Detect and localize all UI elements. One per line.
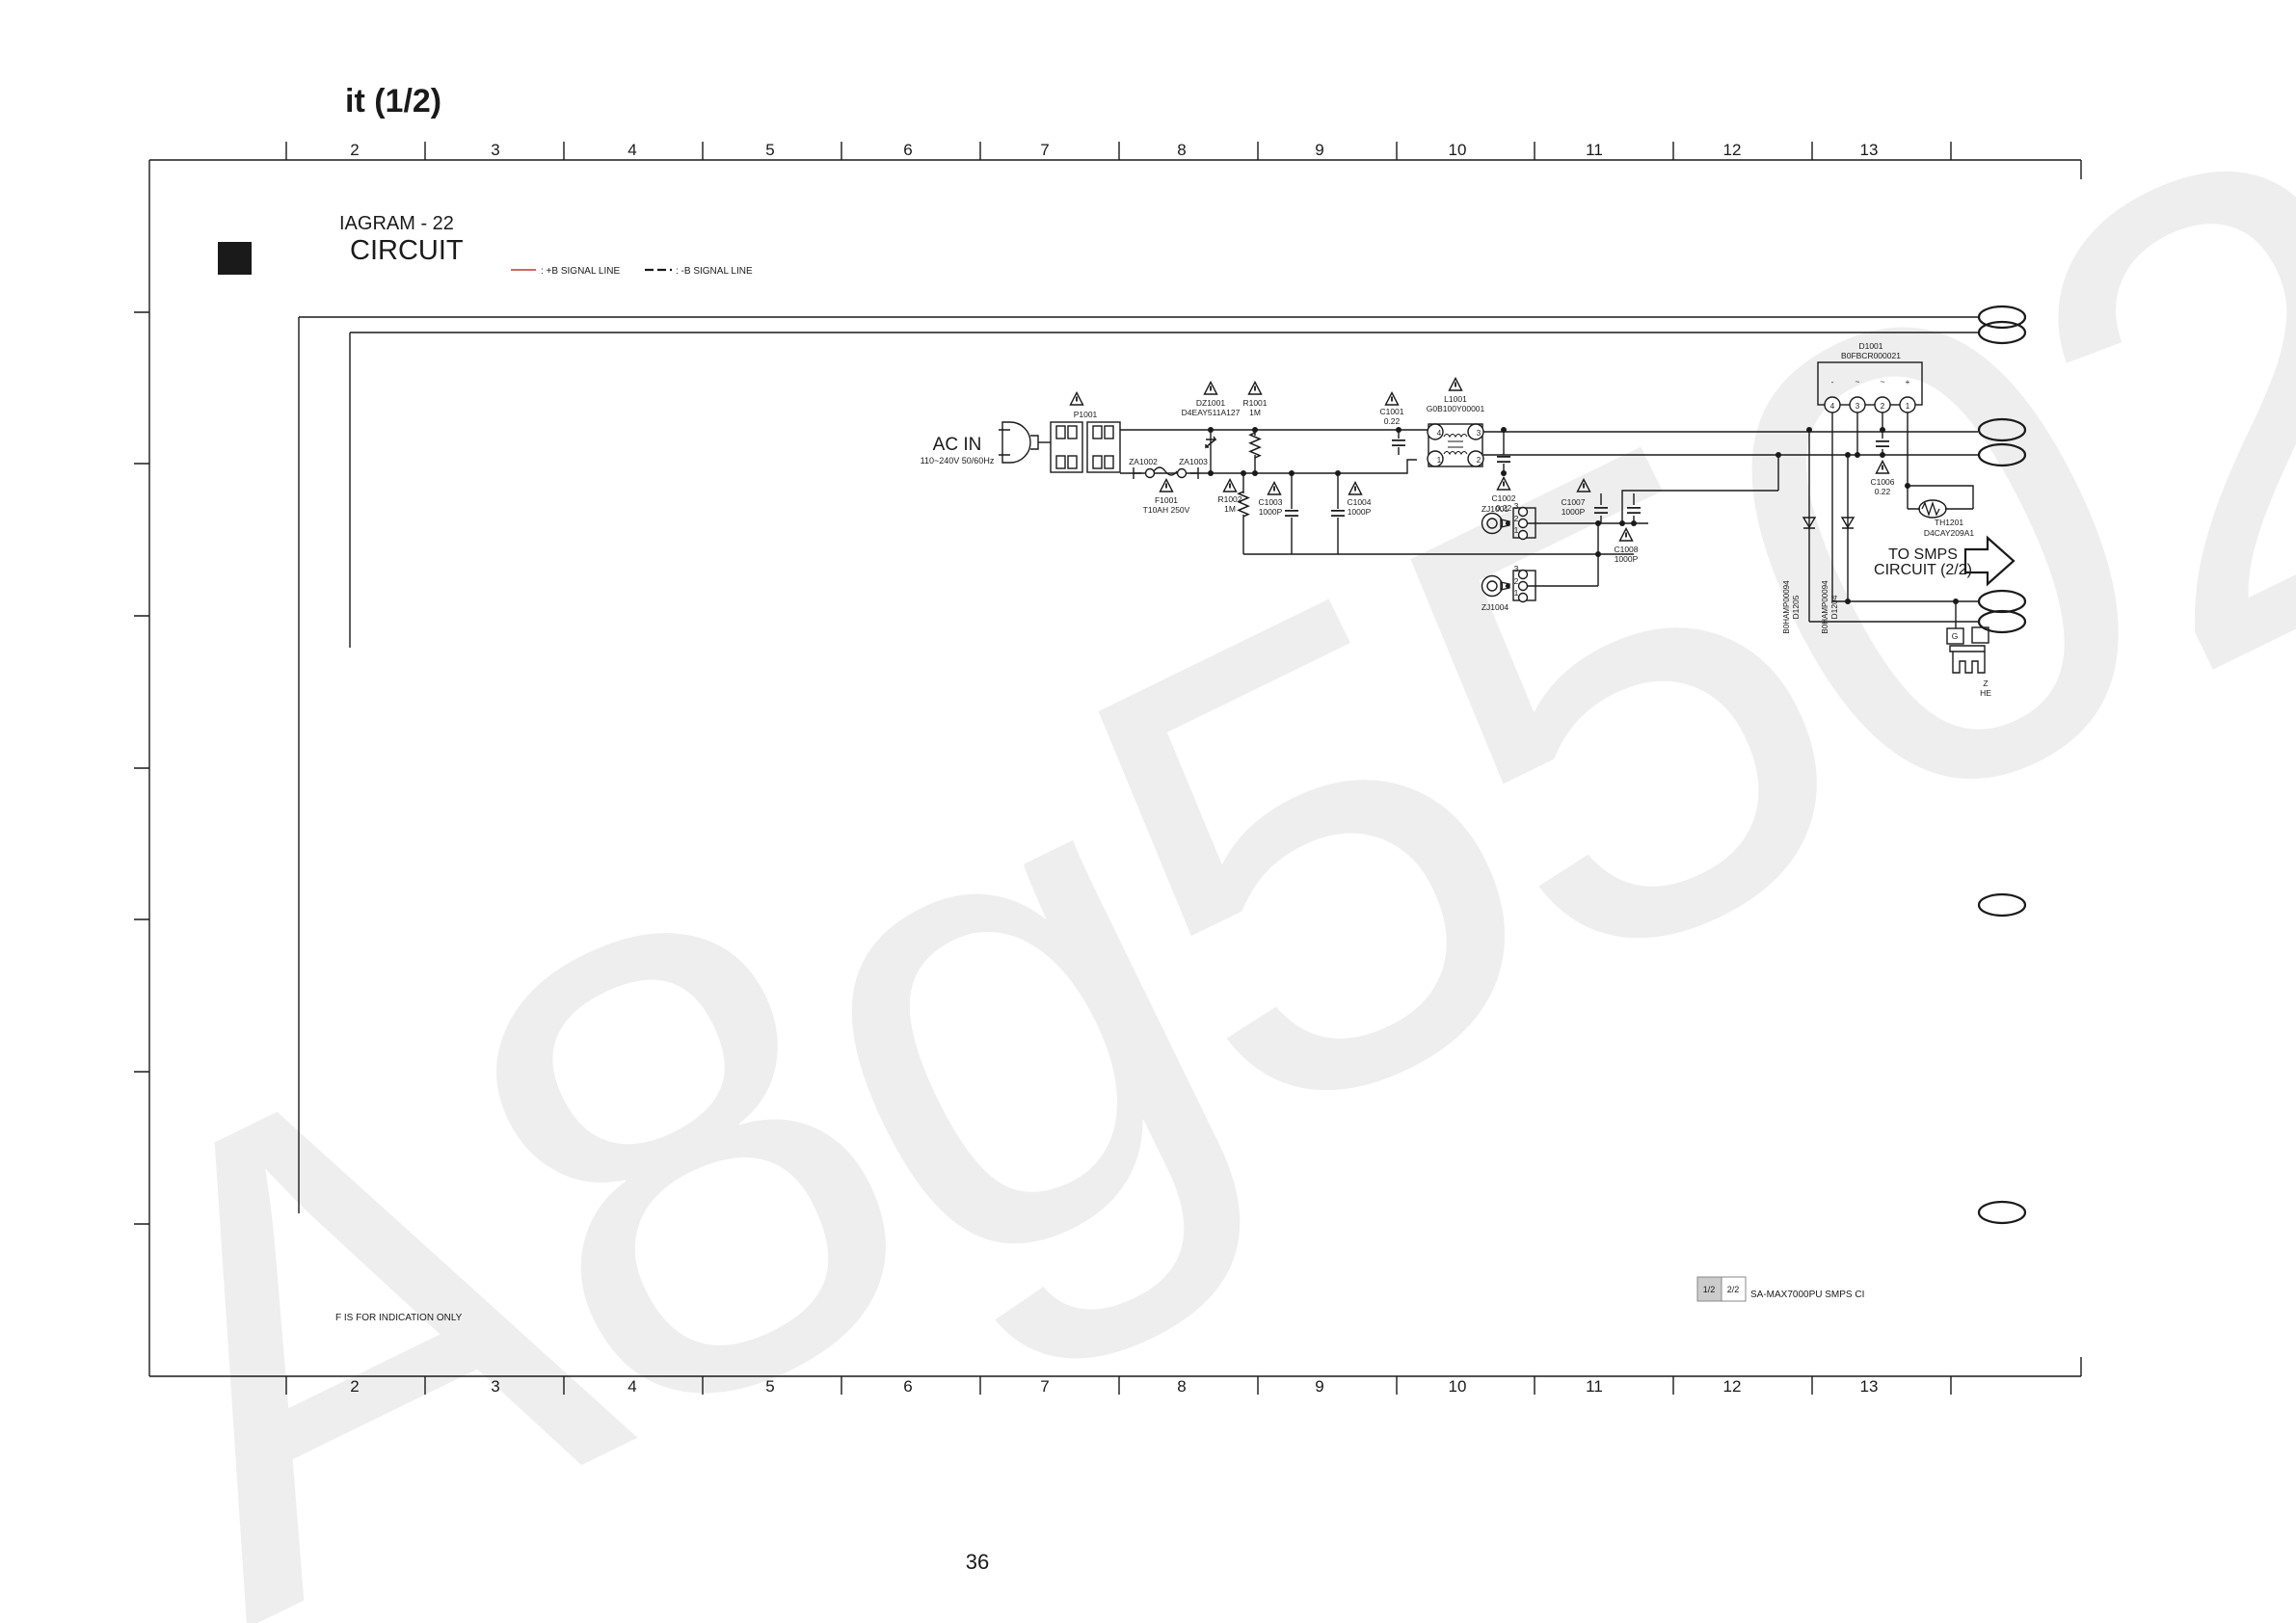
capacitor C1008 [1633, 493, 1635, 523]
svg-text:: -B SIGNAL LINE: : -B SIGNAL LINE [676, 266, 753, 277]
svg-text:1/2: 1/2 [1703, 1285, 1716, 1294]
svg-text:7: 7 [1040, 1377, 1049, 1396]
wire [299, 317, 350, 1213]
wire pin3 to hot rail [1856, 412, 1858, 455]
svg-text:TH1201: TH1201 [1935, 518, 1964, 527]
svg-text:~: ~ [1855, 377, 1860, 386]
svg-text:6: 6 [903, 1377, 912, 1396]
svg-text:1: 1 [1906, 402, 1910, 411]
wire bridge minus pin4 [1832, 412, 1978, 601]
svg-text:C1004: C1004 [1347, 497, 1371, 507]
capacitor C1007 [1600, 493, 1602, 523]
svg-text:Z: Z [1983, 678, 1988, 688]
svg-text:3: 3 [1855, 402, 1860, 411]
svg-text:110~240V 50/60Hz: 110~240V 50/60Hz [921, 456, 995, 466]
svg-text:L1001: L1001 [1444, 394, 1467, 404]
capacitor C1006 [1876, 441, 1889, 446]
svg-text:+: + [1906, 377, 1910, 386]
svg-text:DZ1001: DZ1001 [1196, 398, 1226, 408]
header [218, 83, 753, 277]
svg-text:2: 2 [1514, 514, 1519, 523]
svg-text:C1001: C1001 [1379, 407, 1403, 416]
svg-text:1000P: 1000P [1615, 554, 1639, 564]
svg-text:D4EAY511A127: D4EAY511A127 [1182, 408, 1241, 417]
svg-text:1: 1 [1437, 456, 1442, 465]
svg-text:7: 7 [1040, 141, 1049, 159]
diode D1205 [1808, 430, 1810, 622]
svg-text:11: 11 [1586, 141, 1603, 159]
svg-text:3: 3 [1477, 429, 1482, 438]
svg-text:0.22: 0.22 [1384, 416, 1401, 426]
svg-text:D1205: D1205 [1791, 595, 1801, 619]
node terminal ovals right [1979, 306, 2025, 1223]
svg-text:2: 2 [1477, 456, 1482, 465]
svg-text:0.22: 0.22 [1875, 487, 1891, 496]
svg-text:10: 10 [1449, 141, 1467, 159]
heatsink Z HE connector [1955, 601, 1957, 628]
capacitor C1001 [1398, 430, 1400, 455]
svg-text:2: 2 [350, 141, 359, 159]
svg-text:R1001: R1001 [1242, 398, 1267, 408]
svg-text:36: 36 [966, 1550, 989, 1574]
bridge rectifier D1001 [1782, 341, 2014, 698]
zener DZ1001 [1206, 430, 1215, 473]
svg-text:CIRCUIT (2/2): CIRCUIT (2/2) [1874, 562, 1972, 578]
svg-text:1M: 1M [1249, 408, 1261, 417]
svg-text:C1002: C1002 [1491, 493, 1515, 503]
svg-text:8: 8 [1177, 141, 1186, 159]
wire [1528, 523, 1598, 586]
svg-text:3: 3 [1514, 501, 1519, 511]
svg-text:1M: 1M [1224, 504, 1236, 514]
svg-text:ZA1002: ZA1002 [1129, 457, 1158, 466]
svg-text:4: 4 [627, 141, 636, 159]
svg-text:G: G [1952, 631, 1959, 641]
svg-text:11: 11 [1586, 1377, 1603, 1396]
wire lower gnd rail [1243, 553, 1634, 555]
resistor R1001 [1254, 430, 1256, 473]
svg-text:9: 9 [1315, 141, 1323, 159]
wire [1622, 455, 1778, 523]
svg-text:ZA1003: ZA1003 [1179, 457, 1208, 466]
svg-text:T10AH 250V: T10AH 250V [1143, 505, 1190, 515]
svg-text:1000P: 1000P [1348, 507, 1372, 517]
wires after L1001 [1483, 432, 1978, 455]
svg-text:4: 4 [627, 1377, 636, 1396]
svg-text:2/2: 2/2 [1727, 1285, 1740, 1294]
svg-text:D1204: D1204 [1829, 595, 1839, 619]
svg-text:it (1/2): it (1/2) [345, 83, 441, 120]
svg-text:B0HAMP00094: B0HAMP00094 [1782, 580, 1791, 634]
svg-text:R1002: R1002 [1217, 494, 1241, 504]
svg-text:9: 9 [1315, 1377, 1323, 1396]
svg-text:8: 8 [1177, 1377, 1186, 1396]
svg-text:2: 2 [1514, 576, 1519, 586]
svg-text:F IS FOR INDICATION ONLY: F IS FOR INDICATION ONLY [335, 1313, 463, 1323]
svg-text:5: 5 [765, 1377, 774, 1396]
AC input section [921, 379, 1978, 555]
svg-text:2: 2 [350, 1377, 359, 1396]
svg-text:C1006: C1006 [1870, 477, 1894, 487]
capacitor C1003 [1291, 473, 1293, 554]
line filter L1001 [1428, 424, 1483, 466]
svg-text:AC IN: AC IN [933, 435, 982, 455]
capacitor C1002 [1503, 430, 1505, 473]
svg-text:ZJ1004: ZJ1004 [1482, 602, 1509, 612]
wire pin2 with C1006 [1882, 412, 1883, 455]
svg-text:5: 5 [765, 141, 774, 159]
svg-text:F1001: F1001 [1155, 495, 1178, 505]
resistor R1002 [1242, 473, 1244, 554]
wire [299, 317, 1978, 333]
svg-text:ZJ1001: ZJ1001 [1482, 504, 1509, 514]
svg-text:B0FBCR000021: B0FBCR000021 [1841, 351, 1901, 360]
svg-text:TO SMPS: TO SMPS [1888, 546, 1958, 563]
capacitor C1004 [1337, 473, 1339, 554]
thermistor TH1201 [1908, 412, 1973, 509]
svg-text:B0HAMP00094: B0HAMP00094 [1821, 580, 1829, 634]
svg-text:1: 1 [1514, 588, 1519, 598]
svg-text:1000P: 1000P [1562, 507, 1586, 517]
svg-text:10: 10 [1449, 1377, 1467, 1396]
svg-text:4: 4 [1830, 402, 1835, 411]
svg-text:12: 12 [1723, 141, 1742, 159]
svg-text:13: 13 [1860, 1377, 1879, 1396]
svg-text:HE: HE [1980, 688, 1991, 698]
svg-text:D1001: D1001 [1858, 341, 1882, 351]
fuse F1001 [1134, 467, 1198, 479]
svg-text:-: - [1831, 377, 1834, 386]
svg-text:P1001: P1001 [1074, 410, 1098, 419]
wire AC hot [1120, 429, 1428, 431]
AC plug [999, 422, 1038, 463]
svg-text:1: 1 [1514, 525, 1519, 535]
svg-text:G0B100Y00001: G0B100Y00001 [1427, 404, 1485, 413]
svg-text:: +B SIGNAL LINE: : +B SIGNAL LINE [541, 266, 620, 277]
sheet id [1697, 1277, 1864, 1301]
svg-text:3: 3 [491, 1377, 499, 1396]
connector P1001 [1038, 393, 1120, 473]
wire D1205/D1204 to oval [1809, 621, 1978, 623]
svg-text:6: 6 [903, 141, 912, 159]
svg-text:SA-MAX7000PU SMPS CI: SA-MAX7000PU SMPS CI [1750, 1290, 1864, 1300]
ZJ ring terminals and C1007/C1008 [1482, 452, 1781, 612]
svg-text:CIRCUIT: CIRCUIT [350, 235, 464, 266]
svg-text:4: 4 [1437, 429, 1442, 438]
wire AC neutral [1120, 460, 1417, 473]
svg-text:C1003: C1003 [1258, 497, 1282, 507]
diode D1204 [1847, 455, 1849, 601]
svg-text:D4CAY209A1: D4CAY209A1 [1924, 528, 1975, 538]
svg-text:3: 3 [491, 141, 499, 159]
svg-text:2: 2 [1881, 402, 1885, 411]
ring terminal ZJ1001 [1482, 508, 1536, 540]
svg-text:C1007: C1007 [1561, 497, 1585, 507]
svg-text:~: ~ [1881, 377, 1885, 386]
svg-text:3: 3 [1514, 564, 1519, 573]
ring terminal ZJ1004 [1482, 571, 1536, 602]
svg-text:1000P: 1000P [1259, 507, 1283, 517]
node top rails to ovals [299, 306, 2025, 1223]
svg-text:C1008: C1008 [1614, 545, 1638, 554]
svg-text:IAGRAM - 22: IAGRAM - 22 [339, 213, 454, 234]
svg-text:12: 12 [1723, 1377, 1742, 1396]
svg-text:13: 13 [1860, 141, 1879, 159]
